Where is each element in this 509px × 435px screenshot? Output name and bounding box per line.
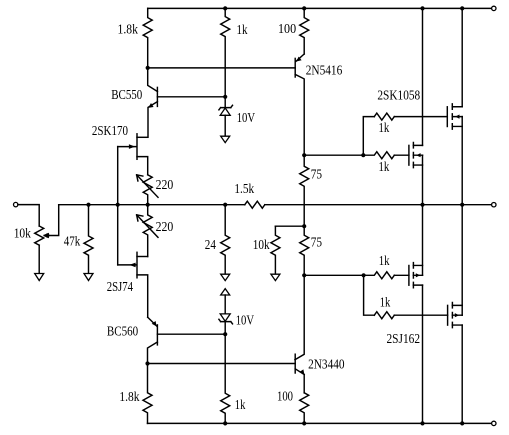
node gate line on rail bbox=[116, 203, 120, 207]
terminal output right bbox=[492, 203, 496, 207]
arrow terminal under upper zener bbox=[221, 136, 230, 142]
svg-text:1k: 1k bbox=[235, 398, 246, 413]
ground 47k bbox=[84, 274, 93, 281]
wire 1k to 2SK1058 left gate bbox=[394, 154, 409, 156]
svg-text:10k: 10k bbox=[14, 227, 31, 242]
terminal input bbox=[14, 202, 18, 206]
svg-text:10V: 10V bbox=[236, 314, 254, 329]
transistor J1 2SK170 bbox=[137, 136, 148, 138]
ground pot bbox=[35, 274, 44, 281]
wire wiper to rail bbox=[47, 205, 58, 236]
resistor R 47k bbox=[84, 205, 93, 274]
node drain P right rail bbox=[460, 421, 464, 425]
resistor R 1k top bbox=[221, 8, 230, 96]
mosfet M 2SJ162 right bbox=[447, 305, 449, 325]
svg-text:BC550: BC550 bbox=[111, 88, 142, 103]
wire 1k to 2SJ162 left gate bbox=[394, 274, 409, 276]
svg-text:1k: 1k bbox=[379, 254, 390, 269]
transistor Q 2N3440 bbox=[295, 275, 304, 360]
svg-text:2SJ74: 2SJ74 bbox=[107, 280, 133, 295]
transistor Q 2N5416 bbox=[296, 54, 304, 61]
resistor R 10k mid bbox=[271, 226, 280, 274]
transistor Q BC550 bbox=[148, 68, 158, 92]
node source right on output bbox=[460, 203, 464, 207]
node 10k junction bbox=[302, 224, 306, 228]
svg-text:100: 100 bbox=[278, 22, 296, 37]
node gate splitter upper bbox=[361, 153, 365, 157]
resistor R 1k gate P upper bbox=[364, 272, 395, 279]
terminal bottom right bbox=[492, 421, 496, 425]
svg-text:1.8k: 1.8k bbox=[118, 22, 138, 37]
wire riser to upper 1k bbox=[363, 117, 374, 156]
wire drain left mosfet bbox=[422, 8, 424, 145]
wire source right mosfet bbox=[461, 117, 463, 205]
svg-text:1k: 1k bbox=[380, 295, 391, 310]
svg-text:1.5k: 1.5k bbox=[234, 182, 254, 197]
transistor Q BC560 bbox=[148, 317, 157, 326]
wire drain P left bbox=[422, 285, 424, 423]
wire JFET gate line bbox=[117, 147, 119, 265]
wire pot bottom bbox=[38, 245, 40, 273]
svg-text:1k: 1k bbox=[379, 160, 390, 175]
svg-text:2N3440: 2N3440 bbox=[308, 357, 345, 372]
svg-text:220: 220 bbox=[156, 220, 174, 235]
resistor R 24 bbox=[221, 205, 230, 275]
wire 1k to 2SK1058 right gate bbox=[394, 116, 447, 118]
mosfet M 2SK1058 left bbox=[408, 145, 410, 165]
svg-text:24: 24 bbox=[205, 238, 216, 253]
node zener bottom bbox=[223, 332, 227, 336]
svg-text:10V: 10V bbox=[237, 111, 255, 126]
svg-text:BC560: BC560 bbox=[107, 325, 138, 340]
wire top positive rail bbox=[148, 7, 492, 9]
node 47k top bbox=[86, 203, 90, 207]
transistor J2 2SJ74 bbox=[137, 256, 148, 258]
node BC550 collector / base feed bbox=[146, 66, 150, 70]
node 1k top rail bbox=[223, 6, 227, 10]
svg-text:47k: 47k bbox=[64, 234, 81, 249]
resistor R 75 lower bbox=[300, 226, 309, 275]
node 24 top bbox=[223, 203, 227, 207]
svg-text:220: 220 bbox=[156, 178, 174, 193]
wire riser to lower 1k bbox=[364, 275, 375, 315]
wire bottom negative rail bbox=[148, 422, 492, 424]
wire drain P right bbox=[461, 325, 463, 423]
arrow terminal above lower zener bbox=[221, 289, 230, 295]
potentiometer VR 10k bbox=[35, 226, 44, 245]
trimmer VR 220 lower bbox=[143, 205, 152, 257]
svg-text:2SK1058: 2SK1058 bbox=[377, 88, 420, 103]
resistor R 1k bottom bbox=[221, 334, 230, 423]
resistor R 100 top bbox=[300, 8, 309, 54]
resistor R 1k gate upper bbox=[374, 113, 394, 120]
resistor R 1k gate lower bbox=[363, 152, 394, 159]
node wiper bbox=[45, 233, 49, 237]
node zener top bbox=[223, 95, 227, 99]
node BC560 collector bbox=[145, 361, 149, 365]
svg-text:10k: 10k bbox=[253, 238, 270, 253]
svg-text:2SJ162: 2SJ162 bbox=[387, 332, 421, 347]
node 2N5416 collector bbox=[302, 153, 306, 157]
wire mid output rail left segment bbox=[59, 204, 245, 206]
zener D 10V lower bbox=[224, 295, 226, 314]
wire lower gate feed bbox=[304, 274, 363, 276]
node 100 top rail bbox=[302, 6, 306, 10]
wire input stub bbox=[18, 205, 39, 226]
arrow terminal under 24 bbox=[221, 274, 230, 280]
node drain rail right bbox=[460, 6, 464, 10]
wire source left mosfet bbox=[422, 155, 424, 205]
node drain rail left bbox=[420, 6, 424, 10]
arrow terminal under 10k bbox=[271, 274, 280, 280]
wire source P left bbox=[422, 205, 424, 276]
resistor R 1k gate P lower bbox=[374, 312, 394, 319]
svg-text:75: 75 bbox=[311, 168, 322, 183]
wire 10k to 75 junction bbox=[275, 225, 304, 227]
wire source P right bbox=[461, 205, 463, 316]
trimmer VR 220 upper bbox=[143, 175, 152, 205]
node mid left bbox=[146, 203, 150, 207]
resistor R 1.8k top bbox=[143, 8, 152, 68]
svg-text:100: 100 bbox=[277, 389, 293, 404]
terminal top right bbox=[492, 6, 496, 10]
wire to 2N5416 base bbox=[148, 67, 296, 69]
node source left on output bbox=[420, 203, 424, 207]
node drain P left rail bbox=[420, 421, 424, 425]
node 100 bottom rail bbox=[302, 421, 306, 425]
resistor R 1.5k horizontal bbox=[245, 201, 265, 208]
svg-text:2SK170: 2SK170 bbox=[92, 124, 128, 139]
resistor R 1.8k bottom bbox=[143, 364, 152, 424]
node lower gate feed bbox=[302, 273, 306, 277]
svg-text:1k: 1k bbox=[237, 23, 248, 38]
zener D 10V upper bbox=[224, 97, 226, 108]
wire drain right mosfet bbox=[461, 8, 463, 106]
svg-text:2N5416: 2N5416 bbox=[306, 63, 343, 78]
node gate splitter lower bbox=[362, 273, 366, 277]
node 1k bottom rail bbox=[223, 421, 227, 425]
mosfet M 2SK1058 right bbox=[446, 107, 448, 127]
svg-text:75: 75 bbox=[311, 236, 322, 251]
svg-text:1.8k: 1.8k bbox=[119, 390, 139, 405]
resistor R 75 upper bbox=[300, 155, 309, 226]
mosfet M 2SJ162 left bbox=[408, 266, 410, 286]
resistor R 100 bottom bbox=[300, 393, 309, 424]
wire mid output rail right segment bbox=[265, 204, 492, 206]
svg-text:1k: 1k bbox=[379, 121, 390, 136]
wire to 2N3440 base bbox=[148, 363, 296, 365]
wire collector node to gate resistors bbox=[304, 154, 363, 156]
wire 1k to 2SJ162 right gate bbox=[394, 314, 447, 316]
